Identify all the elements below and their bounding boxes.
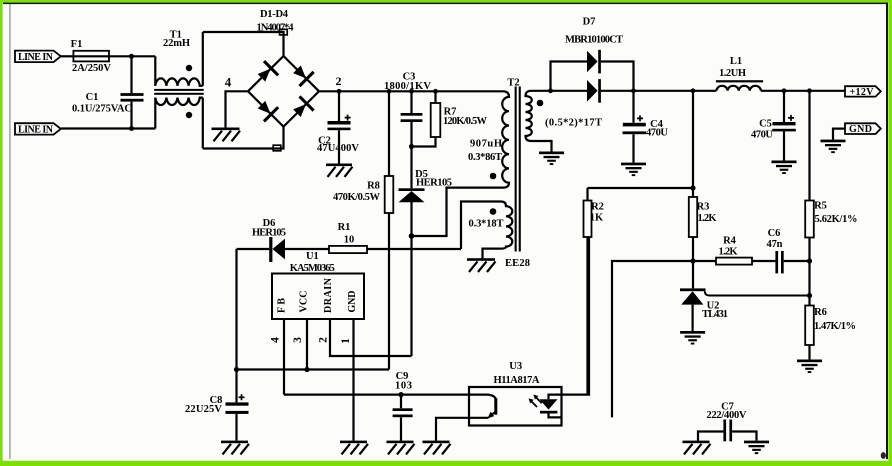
svg-text:EE28: EE28 [505,258,530,269]
capacitor C9 [400,395,402,441]
node A junction dot [129,54,134,59]
ground (U1 GND pin, chassis) [340,441,368,455]
transformer T2 secondary winding [526,91,552,152]
svg-text:R3: R3 [697,201,710,212]
svg-text:L1: L1 [730,56,742,67]
wire D7 output rail to L1 [634,90,717,92]
svg-text:D7: D7 [583,17,596,28]
ground (U2, earth) [680,331,705,345]
ground (U3 emitter, chassis) [423,441,451,455]
svg-text:C5: C5 [759,119,772,130]
svg-text:470K/0.5W: 470K/0.5W [333,192,381,203]
node rail junction dots [337,89,342,94]
border green frame [0,0,892,3]
svg-text:R5: R5 [814,201,827,212]
wire to dual diode D7 [551,62,588,91]
svg-text:VCC: VCC [299,291,310,313]
svg-text:R2: R2 [591,201,604,212]
wire bridge pin2 to DC rail [319,90,503,92]
svg-text:1.2UH: 1.2UH [719,68,746,79]
svg-text:22U25V: 22U25V [185,404,222,415]
U1 pin 3 VCC stub [306,319,308,370]
optocoupler U3 H11A817A box [469,387,562,426]
capacitor C4 [632,91,634,163]
node C3/R7 junction dot [409,144,414,149]
U3 photon arrows [531,397,542,407]
resistor R2 [586,188,588,201]
node output junction dots [691,88,696,93]
svg-text:1N4007*4: 1N4007*4 [257,22,295,33]
wire opto emitter to ground [436,418,469,441]
wire R1 to bias winding top [461,202,501,250]
svg-text:222/400V: 222/400V [707,410,747,421]
node R3/R4/U2 junction dot [690,258,695,263]
ground (C7 left, chassis) [683,441,711,455]
U1 pin 1 GND stub [352,319,354,441]
svg-text:1.47K/1%: 1.47K/1% [814,321,856,332]
svg-text:FB: FB [277,298,288,313]
U3 LED [549,395,562,400]
ground (R6, earth) [797,360,822,374]
ground (GND flag, earth) [821,140,846,154]
svg-text:D1-D4: D1-D4 [260,9,289,20]
diode D3 (bottom-left) [254,98,278,122]
svg-text:(0.5*2)*17T: (0.5*2)*17T [545,118,602,129]
node B junction dot [129,126,134,131]
svg-text:22mH: 22mH [163,38,190,49]
svg-text:47U400V: 47U400V [317,143,359,154]
svg-text:1800/1KV: 1800/1KV [384,81,431,92]
bridge pin marker top [280,29,288,35]
svg-text:T2: T2 [507,78,519,89]
wire T1 to bridge top [203,32,284,56]
svg-text:5.62K/1%: 5.62K/1% [815,214,858,225]
diode D5 [399,188,425,191]
svg-text:4: 4 [270,337,282,343]
svg-text:1.2K: 1.2K [719,247,739,258]
svg-text:H11A817A: H11A817A [494,375,540,386]
svg-text:GND: GND [347,291,358,313]
T1 phase dot top [186,65,192,71]
bridge pin marker bottom [273,145,281,151]
svg-text:3: 3 [292,337,304,343]
shunt regulator U2 TL431 [680,288,706,291]
resistor R1 [329,246,367,253]
wire GND flag to earth [833,129,845,140]
T2 primary phase dot [490,173,497,180]
node drain junction dot [409,233,415,239]
resistor R8 [388,91,390,176]
ground (C2, chassis) [326,164,353,177]
svg-text:C1: C1 [86,92,99,103]
diode D7b (lower) [587,80,598,102]
svg-text:R8: R8 [367,181,380,192]
svg-text:R6: R6 [814,307,827,318]
wire F1 to node A (C1 top junction) [109,55,155,57]
svg-text:HER105: HER105 [252,228,286,239]
bridge D1-D4 diamond edges [248,56,319,127]
ground (bridge pin 4, chassis) [212,128,241,142]
diode D6 [269,237,272,262]
svg-text:120K/0.5W: 120K/0.5W [443,116,488,127]
wire VCC node vertical [235,249,237,402]
svg-text:0.3*86T: 0.3*86T [468,152,502,163]
svg-text:R4: R4 [723,236,737,247]
wire L1 to +12V flag [761,90,845,92]
wire primary bottom to drain node [412,188,504,236]
U1 pin 4 FB stub [283,319,285,395]
inductor L1 [716,80,763,82]
svg-text:10: 10 [344,235,355,246]
svg-text:103: 103 [395,381,412,392]
resistor R7 [434,91,436,103]
svg-text:LINE IN: LINE IN [18,125,54,136]
T1 phase dot bottom [186,112,192,118]
wire VCC bus [237,368,390,370]
transformer T2 primary winding [502,91,509,187]
scan speck bottom right [881,452,886,459]
node D7 output junction dot [631,88,636,93]
capacitor C6 [775,251,778,273]
svg-text:DRAIN: DRAIN [323,277,334,313]
svg-text:KA5M0365: KA5M0365 [290,263,335,274]
node LINE IN (top flag) [15,51,61,63]
svg-text:4: 4 [225,75,232,90]
svg-text:1K: 1K [590,212,604,223]
wire bridge pin4 to ground [226,91,249,127]
fuse F1 [73,55,109,57]
resistor R4 [693,260,716,262]
wire opto anode to R2 [562,237,590,395]
wire R2/R3 top link [588,187,694,189]
wire U2 REF to divider [705,291,810,295]
svg-text:1.2K: 1.2K [698,213,718,224]
wire T1 to bridge bottom [203,127,284,149]
resistor R3 line from rail [692,91,694,197]
svg-text:907uH: 907uH [470,139,502,150]
svg-text:2: 2 [318,337,330,343]
svg-text:MBR10100CT: MBR10100CT [565,35,623,46]
border black right line [886,3,888,460]
svg-text:GND: GND [849,124,872,135]
common-mode choke T1 top winding [154,56,156,86]
ground (C9, chassis) [387,441,415,455]
capacitor C2 [338,91,340,163]
capacitor C1 [130,56,132,128]
capacitor C8 [226,402,249,405]
T2 secondary phase dot [537,100,544,107]
node REF junction dot [807,293,812,298]
transformer T2 bias winding [483,202,513,259]
svg-text:R1: R1 [338,222,351,233]
border gray left line [9,4,10,459]
ground (C5, earth) [772,161,797,175]
svg-text:1: 1 [340,338,352,344]
svg-text:U3: U3 [509,361,522,372]
svg-text:470U: 470U [646,127,668,138]
ground (C7 right, earth) [744,441,769,455]
svg-text:C6: C6 [768,228,781,239]
node +12V flag [845,86,881,96]
node C6/divider junction dot [807,258,812,263]
svg-text:TL431: TL431 [702,309,728,320]
ground (bias winding, chassis) [467,258,496,272]
capacitor C7 [723,420,726,442]
node R3 top junction dot [690,185,695,190]
wire drain pin to D5 line [330,319,412,356]
wire FB bus to optocoupler [284,394,469,396]
T1 core [154,89,204,91]
svg-text:2A/250V: 2A/250V [72,63,111,74]
diode D2 (top-right) [290,62,314,86]
svg-text:HER105: HER105 [416,177,452,188]
T2 core [515,87,517,252]
ground (C8, chassis) [221,441,249,455]
T2 bias phase dot [490,208,497,215]
svg-text:0.3*18T: 0.3*18T [469,218,504,229]
ground (T2 secondary, earth) [539,152,564,166]
node FB/C9 junction dot [398,392,403,397]
node LINE IN (bottom flag) [15,123,61,134]
svg-text:+12V: +12V [850,87,875,98]
resistor R6 [805,306,814,346]
diode D1 (top-left) [254,61,278,85]
node VCC junction dots [234,367,239,372]
wire feedback bus (opto anode/cathode nodes) [612,261,693,417]
node secondary/D7 junction dot [548,88,553,93]
svg-text:0.1U/275VAC: 0.1U/275VAC [72,103,132,114]
resistor R5 [808,91,810,201]
svg-text:U1: U1 [306,251,319,262]
T1 bottom winding [155,98,203,105]
svg-text:2: 2 [336,74,342,88]
node GND flag [845,123,881,134]
svg-text:LINE IN: LINE IN [18,52,54,63]
svg-text:F1: F1 [71,39,83,50]
svg-text:470U: 470U [751,130,773,141]
svg-text:47n: 47n [767,239,783,250]
capacitor C5 [783,91,785,161]
border black top line [3,3,888,5]
capacitor C3 [410,91,412,188]
wire LINE IN bottom to node B [61,127,156,129]
diode D4 (bottom-right) [290,96,314,120]
op-amp U1 (KA5M0365 regulator box) [272,274,364,320]
ground (C4, earth) [621,163,646,177]
U3 phototransistor [469,395,496,400]
wire LINE IN top to fuse F1 [61,55,74,57]
diode D7a (upper) [587,51,598,73]
